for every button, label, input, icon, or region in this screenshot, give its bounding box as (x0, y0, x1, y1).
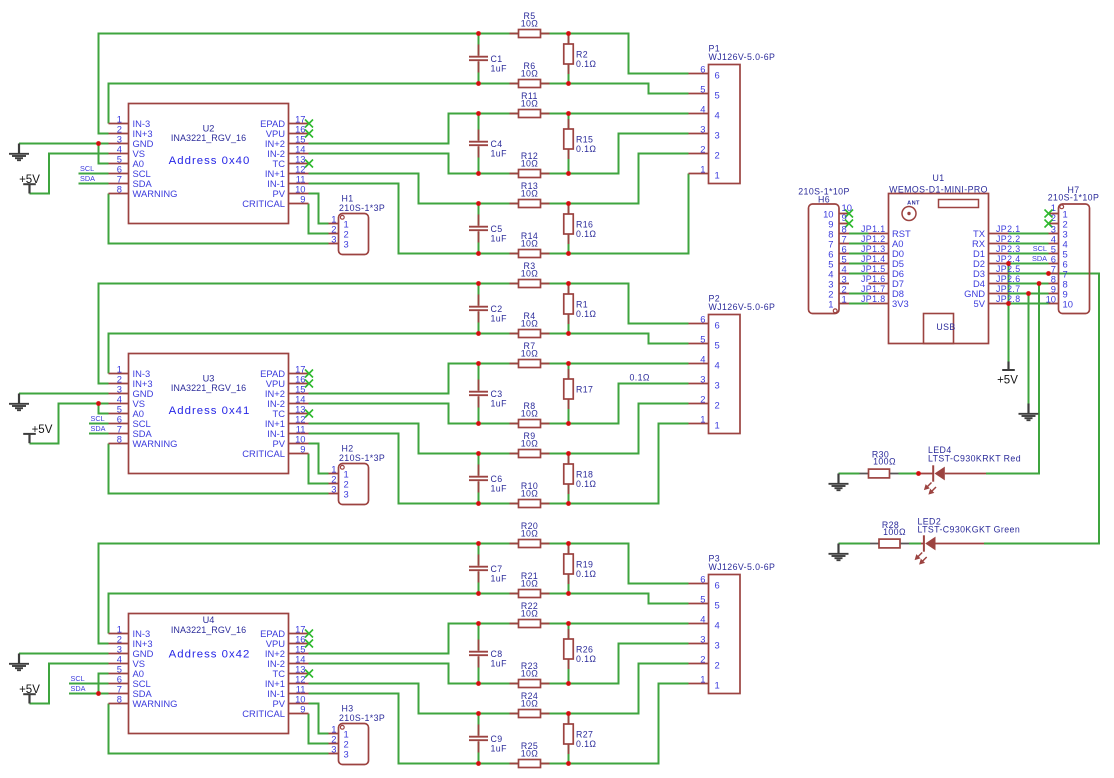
resistor R6 10 ohm (510, 61, 550, 87)
svg-text:10Ω: 10Ω (521, 439, 539, 449)
svg-text:3: 3 (344, 239, 349, 250)
U1 pin D0 (869, 248, 904, 259)
wire net JP2.7 (1009, 293, 1049, 295)
wire U4 IN-3 to P3.5 (109, 594, 689, 634)
U1 pin D6 (869, 268, 904, 279)
wire U4 IN-2 row to P3.3 (309, 644, 689, 684)
U2 pin 5 (A0) (109, 154, 144, 169)
svg-text:4: 4 (715, 109, 720, 120)
U4 pin 15 (IN+2) (265, 644, 309, 659)
svg-text:R18: R18 (576, 469, 593, 479)
junction R26 top (566, 621, 571, 626)
capacitor C8 1uF (469, 640, 507, 669)
svg-text:1: 1 (842, 294, 847, 305)
svg-text:1: 1 (700, 674, 705, 685)
wire U4 IN-1 row to P3.1 (309, 684, 689, 764)
svg-text:6: 6 (700, 64, 705, 75)
P2 pin 3 (689, 374, 720, 391)
resistor R19 0.1 ohm shunt (564, 544, 597, 584)
svg-text:JP2.3: JP2.3 (996, 244, 1021, 254)
U1 pin D3 (973, 268, 1008, 279)
connector H1 210S-1*3P (339, 193, 386, 254)
wire U3 GND net (19, 393, 109, 395)
IC U2 INA3221_RGV_16 (Address 0x40) (129, 104, 289, 224)
resistor R14 10 ohm (510, 231, 550, 257)
U1 pin D5 (869, 258, 904, 269)
resistor R25 10 ohm (510, 741, 550, 767)
svg-text:Address 0x40: Address 0x40 (169, 155, 251, 167)
svg-text:9: 9 (300, 194, 305, 205)
svg-text:1uF: 1uF (491, 574, 508, 584)
junction R18 top (566, 451, 571, 456)
svg-text:SCL: SCL (80, 164, 94, 173)
H2 pin 1 (329, 464, 349, 480)
junction R15 top (566, 111, 571, 116)
svg-text:10Ω: 10Ω (521, 669, 539, 679)
svg-text:WARNING: WARNING (133, 188, 178, 199)
svg-text:H1: H1 (342, 193, 354, 203)
H7 pin 3 (1049, 224, 1068, 240)
wire net JP1.7 (849, 293, 869, 295)
U1 pin D2 (973, 258, 1008, 269)
svg-text:C2: C2 (491, 304, 503, 314)
wire U3 SCL stub (89, 423, 109, 425)
P1 pin 4 (689, 104, 720, 121)
wire U3 IN-3 to P2.5 (109, 334, 689, 374)
wire C2 branch (478, 284, 480, 334)
svg-text:10Ω: 10Ω (521, 19, 539, 29)
svg-text:JP2.2: JP2.2 (996, 234, 1021, 244)
connector H6 210S-1*10P (798, 186, 849, 313)
junction R1 bottom (566, 331, 571, 336)
junction C1 top (476, 31, 481, 36)
wire U3 IN-1 row to P2.1 (309, 424, 689, 504)
H6 pin 5 (828, 254, 849, 270)
svg-text:CRITICAL: CRITICAL (242, 708, 285, 719)
svg-text:10Ω: 10Ω (521, 489, 539, 499)
junction R26 bottom (566, 681, 571, 686)
svg-text:R1: R1 (576, 299, 588, 309)
connector P1 WJ126V-5.0-6P (709, 43, 776, 183)
svg-text:U2: U2 (203, 123, 215, 133)
svg-text:JP1.5: JP1.5 (861, 264, 886, 274)
P2 pin 6 (689, 314, 720, 331)
H2 pin 2 (329, 474, 349, 490)
U1 antenna symbol ANT (902, 200, 920, 220)
svg-text:6: 6 (715, 69, 720, 80)
svg-text:+5V: +5V (19, 174, 40, 186)
wire R2 branch (568, 34, 570, 84)
svg-text:5: 5 (715, 89, 720, 100)
wire U2 SDA stub (79, 183, 109, 185)
U3 pin 2 (IN+3) (109, 374, 153, 389)
U3 pin 10 (PV) (272, 434, 308, 449)
junction C8 bottom (476, 681, 481, 686)
U1 pin A0 (869, 238, 904, 249)
resistor R20 10 ohm (510, 521, 550, 547)
svg-text:0.1Ω: 0.1Ω (576, 59, 596, 69)
svg-text:1uF: 1uF (491, 149, 508, 159)
+5V supply symbol (U2) (19, 174, 40, 193)
svg-text:1uF: 1uF (491, 314, 508, 324)
U3 pin 8 (WARNING) (109, 434, 178, 449)
svg-text:Address 0x41: Address 0x41 (169, 405, 251, 417)
resistor R28 100 ohm (870, 520, 909, 548)
svg-text:1: 1 (715, 169, 720, 180)
svg-text:+5V: +5V (19, 684, 40, 696)
svg-text:9: 9 (300, 444, 305, 455)
wire R15 branch (568, 114, 570, 174)
svg-text:0.1Ω: 0.1Ω (630, 373, 650, 383)
wire U4 SDA stub (69, 693, 109, 695)
U4 pin 14 (IN-2) (267, 654, 308, 669)
junction R15 bottom (566, 171, 571, 176)
U2 pin 14 (IN-2) (267, 144, 308, 159)
H6 pin 8 (828, 224, 849, 240)
svg-text:3: 3 (331, 234, 336, 245)
P3 pin 2 (689, 654, 720, 671)
U3 pin 16 (VPU) (266, 374, 313, 389)
capacitor C9 1uF (469, 725, 507, 754)
wire C5 branch (478, 204, 480, 254)
P1 pin 3 (689, 124, 720, 141)
U1 pin D1 (973, 248, 1008, 259)
svg-text:6: 6 (700, 574, 705, 585)
wire R1 branch (568, 284, 570, 334)
U4 pin 11 (IN-1) (267, 684, 308, 699)
junction JP2.6 branch (1037, 281, 1042, 286)
U4 pin 3 (GND) (109, 644, 154, 659)
wire net JP1.2 (849, 243, 869, 245)
wire C6 branch (478, 454, 480, 504)
U3 pin 11 (IN-1) (267, 424, 308, 439)
U1 antenna trace rectangle (939, 200, 979, 208)
U3 pin 14 (IN-2) (267, 394, 308, 409)
svg-text:2: 2 (715, 149, 720, 160)
junction JP2.7 branch (1026, 291, 1031, 296)
svg-text:C8: C8 (491, 649, 503, 659)
connector H7 210S-1*10P (1048, 185, 1099, 313)
junction C2 top (476, 281, 481, 286)
U4 pin 9 (CRITICAL) (242, 704, 308, 719)
capacitor C4 1uF (469, 130, 507, 159)
wire C4 branch (478, 114, 480, 174)
svg-text:10Ω: 10Ω (521, 99, 539, 109)
junction R1 top (566, 281, 571, 286)
svg-text:3: 3 (331, 744, 336, 755)
wire R30 to LED4 (899, 473, 919, 475)
U1 pin TX (973, 228, 1008, 239)
svg-text:1: 1 (700, 164, 705, 175)
svg-text:SCL: SCL (91, 414, 105, 423)
U3 pin 3 (GND) (109, 384, 154, 399)
svg-text:5: 5 (700, 334, 705, 345)
resistor R2 0.1 ohm shunt (564, 34, 597, 74)
svg-text:4: 4 (715, 359, 720, 370)
H7 pin 10 (1046, 294, 1073, 310)
wire C3 branch (478, 364, 480, 424)
wire net JP1.5 (849, 273, 869, 275)
capacitor C7 1uF (469, 555, 507, 584)
svg-text:4: 4 (700, 354, 705, 365)
module U1 WEMOS-D1-MINI-PRO (889, 173, 989, 343)
U3 pin 1 (IN-3) (109, 364, 151, 379)
svg-text:SDA: SDA (80, 174, 95, 183)
svg-text:USB: USB (936, 322, 955, 332)
svg-text:10Ω: 10Ω (521, 609, 539, 619)
wire U3 A0 to VS (99, 404, 109, 414)
H3 pin 1 (329, 724, 349, 740)
P3 pin 1 (689, 674, 720, 691)
capacitor C2 1uF (469, 295, 507, 324)
H6 pin 9 (828, 212, 853, 230)
wire C1 branch (478, 34, 480, 84)
wire U2 WARNING to H1.3 (109, 194, 329, 244)
svg-text:U1: U1 (932, 173, 944, 183)
svg-text:WJ126V-5.0-6P: WJ126V-5.0-6P (709, 52, 776, 62)
U2 pin 6 (SCL) (109, 164, 151, 179)
resistor R4 10 ohm (510, 311, 550, 337)
wire R18 branch (568, 454, 570, 504)
H7 pin 5 (1049, 244, 1068, 260)
wire U2 IN-2 row to P1.3 (309, 134, 689, 174)
junction C7 bottom (476, 591, 481, 596)
U1 pin RX (972, 238, 1009, 249)
svg-text:JP2.7: JP2.7 (996, 284, 1021, 294)
wire net JP1.3 (849, 253, 869, 255)
wire JP2.5 to LED2 (984, 274, 1099, 544)
H1 pin 3 (329, 234, 349, 250)
resistor R9 10 ohm (510, 431, 550, 457)
resistor R10 10 ohm (510, 481, 550, 507)
ground symbol at U3 GND (9, 394, 29, 411)
wire net JP1.1 (849, 233, 869, 235)
svg-text:JP1.1: JP1.1 (861, 224, 886, 234)
svg-text:WJ126V-5.0-6P: WJ126V-5.0-6P (709, 302, 776, 312)
U2 pin 4 (VS) (109, 144, 146, 159)
LED LED2 LTST-C930KGKT Green (916, 517, 1020, 564)
svg-text:10Ω: 10Ω (521, 319, 539, 329)
svg-text:1uF: 1uF (491, 64, 508, 74)
wire U4 IN+3 to P3.6 (99, 544, 689, 644)
svg-text:2: 2 (700, 654, 705, 665)
svg-text:10Ω: 10Ω (521, 699, 539, 709)
svg-text:3: 3 (331, 484, 336, 495)
svg-text:JP1.3: JP1.3 (861, 244, 886, 254)
wire U2 SCL stub (79, 173, 109, 175)
U2 pin 2 (IN+3) (109, 124, 153, 139)
junction R30/LED4 (916, 471, 921, 476)
P1 pin 1 (689, 164, 720, 181)
svg-text:10Ω: 10Ω (521, 529, 539, 539)
IC U3 INA3221_RGV_16 (Address 0x41) (129, 354, 289, 474)
svg-text:10Ω: 10Ω (521, 409, 539, 419)
svg-text:+5V: +5V (997, 374, 1018, 386)
svg-text:WARNING: WARNING (133, 698, 178, 709)
svg-text:8: 8 (117, 184, 122, 195)
svg-text:1uF: 1uF (491, 484, 508, 494)
junction R2 bottom (566, 81, 571, 86)
U2 pin 7 (SDA) (109, 174, 153, 189)
U3 pin 15 (IN+2) (265, 384, 309, 399)
resistor R11 10 ohm (510, 91, 550, 117)
wire C8 branch (478, 624, 480, 684)
svg-text:0.1Ω: 0.1Ω (576, 309, 596, 319)
junction C5 bottom (476, 251, 481, 256)
resistor R27 0.1 ohm shunt (564, 714, 597, 754)
H6 pin 3 (828, 274, 849, 290)
U4 pin 13 (TC) (273, 664, 314, 679)
wire U2 IN+3 to P1.6 (99, 34, 689, 134)
wire +5V to U4 VS (30, 664, 109, 704)
wire U2 IN+2 row to P1.4 (309, 114, 689, 144)
svg-text:C6: C6 (491, 474, 503, 484)
wire R28 to LED2 (909, 543, 921, 545)
wire U3 IN+1 row to P2.2 (309, 404, 689, 454)
U3 pin 4 (VS) (109, 394, 146, 409)
junction C6 bottom (476, 501, 481, 506)
wire R17 branch (568, 364, 570, 424)
svg-text:2: 2 (700, 394, 705, 405)
svg-text:2: 2 (700, 144, 705, 155)
junction R19 bottom (566, 591, 571, 596)
U1 pin D8 (869, 288, 904, 299)
ground symbol at R28 (829, 544, 849, 561)
wire U4 CRITICAL to H3.2 (309, 714, 329, 744)
U3 pin 6 (SCL) (109, 414, 151, 429)
junction JP2.5 branch (1046, 271, 1051, 276)
wire +5V to U2 VS (30, 154, 109, 194)
junction JP2.4 branch (1006, 261, 1011, 266)
P2 pin 1 (689, 414, 720, 431)
svg-text:LTST-C930KRKT Red: LTST-C930KRKT Red (928, 454, 1021, 464)
svg-text:5: 5 (700, 594, 705, 605)
junction C4 bottom (476, 171, 481, 176)
resistor R12 10 ohm (510, 151, 550, 177)
U4 pin 17 (EPAD) (260, 624, 313, 639)
resistor R26 0.1 ohm shunt (564, 629, 597, 669)
svg-text:INA3221_RGV_16: INA3221_RGV_16 (171, 383, 246, 393)
H7 pin 4 (1049, 234, 1068, 250)
+5V supply symbol (U3) (23, 424, 53, 443)
U2 pin 8 (WARNING) (109, 184, 178, 199)
junction R17 top (566, 361, 571, 366)
wire R19 branch (568, 544, 570, 594)
wire JP2.4/JP2.8 to +5V (1008, 264, 1010, 362)
wire JP2.6 to LED4 (986, 284, 1039, 474)
svg-text:U4: U4 (203, 615, 215, 625)
svg-text:H2: H2 (342, 443, 354, 453)
wire U2 GND net (19, 143, 109, 145)
U4 pin 16 (VPU) (266, 634, 313, 649)
resistor R1 0.1 ohm shunt (564, 284, 597, 324)
U1 pin 5V (974, 298, 1009, 309)
svg-text:210S-1*3P: 210S-1*3P (339, 453, 385, 463)
wire U2 PV to H1.1 (309, 194, 329, 224)
U4 pin 10 (PV) (272, 694, 308, 709)
U2 pin 13 (TC) (273, 154, 314, 169)
+5V supply symbol (U4) (19, 684, 40, 703)
wire U3 IN+2 row to P2.4 (309, 364, 689, 394)
svg-text:C7: C7 (491, 564, 503, 574)
junction R18 bottom (566, 501, 571, 506)
svg-text:R19: R19 (576, 559, 593, 569)
H1 pin 1 (329, 214, 349, 230)
junction U4 A0/SDA tie (96, 691, 101, 696)
wire C9 branch (478, 714, 480, 764)
svg-text:3V3: 3V3 (892, 298, 909, 309)
svg-text:SCL: SCL (71, 674, 85, 683)
U1 pin RST (869, 228, 912, 239)
U4 pin 8 (WARNING) (109, 694, 178, 709)
connector H3 210S-1*3P (339, 703, 386, 764)
wire net JP2.2 (1009, 243, 1049, 245)
junction C1 bottom (476, 81, 481, 86)
svg-text:9: 9 (300, 704, 305, 715)
H1 pin 2 (329, 224, 349, 240)
connector H2 210S-1*3P (339, 443, 386, 504)
svg-text:1: 1 (700, 414, 705, 425)
svg-text:0.1Ω: 0.1Ω (576, 654, 596, 664)
P1 pin 2 (689, 144, 720, 161)
ground symbol at R30 (829, 474, 849, 491)
svg-text:3: 3 (700, 634, 705, 645)
H6 pin 7 (828, 234, 849, 250)
U2 pin 11 (IN-1) (267, 174, 308, 189)
svg-text:10Ω: 10Ω (521, 749, 539, 759)
wire R27 branch (568, 714, 570, 764)
H7 pin 2 (1045, 212, 1068, 230)
junction C8 top (476, 621, 481, 626)
svg-text:0.1Ω: 0.1Ω (576, 739, 596, 749)
svg-text:1uF: 1uF (491, 659, 508, 669)
IC U4 INA3221_RGV_16 (Address 0x42) (129, 614, 289, 734)
U4 pin 2 (IN+3) (109, 634, 153, 649)
svg-text:10Ω: 10Ω (521, 349, 539, 359)
resistor R24 10 ohm (510, 691, 550, 717)
U3 pin 9 (CRITICAL) (242, 444, 308, 459)
svg-text:10Ω: 10Ω (521, 189, 539, 199)
LED LED4 LTST-C930KRKT Red (919, 445, 1022, 494)
U3 pin 12 (IN+1) (265, 414, 309, 429)
svg-text:6: 6 (715, 319, 720, 330)
P1 pin 6 (689, 64, 720, 81)
svg-text:10Ω: 10Ω (521, 69, 539, 79)
svg-text:2: 2 (715, 659, 720, 670)
wire U4 PV to H3.1 (309, 704, 329, 734)
U1 pin D7 (869, 278, 904, 289)
svg-text:3: 3 (715, 379, 720, 390)
svg-text:SDA: SDA (71, 684, 86, 693)
H6 pin 2 (828, 284, 849, 300)
H7 pin 7 (1049, 264, 1068, 280)
svg-text:5V: 5V (974, 298, 986, 309)
resistor R22 10 ohm (510, 601, 550, 627)
junction C2 bottom (476, 331, 481, 336)
svg-text:C5: C5 (491, 224, 503, 234)
svg-text:10: 10 (1063, 299, 1073, 310)
connector P3 WJ126V-5.0-6P (709, 553, 776, 693)
junction R2 top (566, 31, 571, 36)
svg-text:3: 3 (700, 374, 705, 385)
wire U4 GND net (19, 653, 109, 655)
U2 pin 9 (CRITICAL) (242, 194, 308, 209)
svg-text:8: 8 (117, 434, 122, 445)
resistor R13 10 ohm (510, 181, 550, 207)
wire net JP2.4 (1009, 263, 1049, 265)
junction R17 bottom (566, 421, 571, 426)
svg-text:SCL: SCL (1033, 244, 1047, 253)
